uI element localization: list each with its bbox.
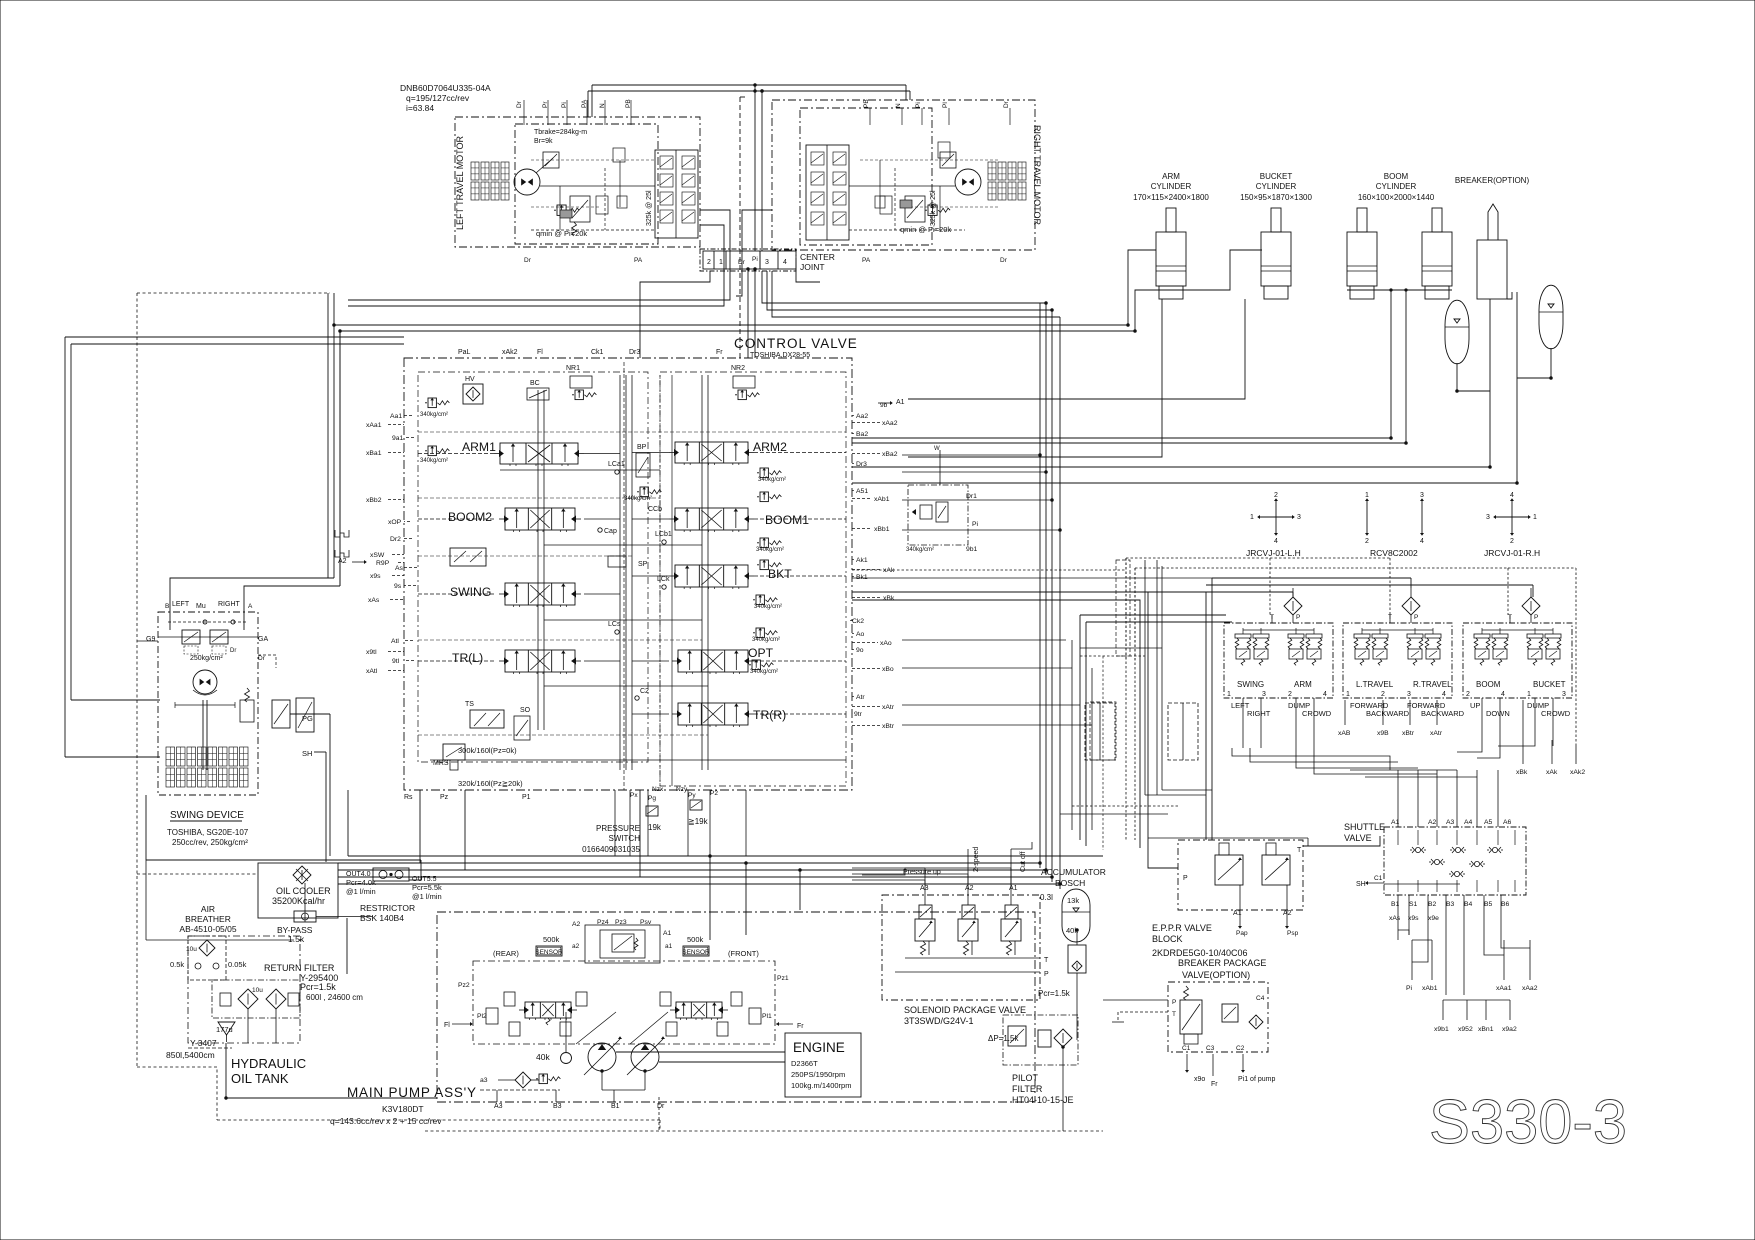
svg-text:SWING: SWING xyxy=(1237,680,1264,689)
svg-text:Mu: Mu xyxy=(196,603,206,610)
remote control valve box L.TRAVEL/R.TRAVEL xyxy=(1343,623,1452,698)
svg-text:Dr: Dr xyxy=(516,100,523,108)
svg-text:OIL COOLER: OIL COOLER xyxy=(276,886,331,896)
svg-text:xAa1: xAa1 xyxy=(366,422,382,429)
svg-text:2: 2 xyxy=(1381,691,1385,698)
svg-text:Psv: Psv xyxy=(640,919,652,926)
svg-text:xAs: xAs xyxy=(368,597,380,604)
svg-text:xAb1: xAb1 xyxy=(1422,985,1438,992)
svg-text:RCV8C2002: RCV8C2002 xyxy=(1370,548,1418,558)
svg-text:4: 4 xyxy=(1510,492,1514,499)
cooler wires xyxy=(146,859,421,861)
svg-text:PA: PA xyxy=(862,257,871,264)
svg-text:P: P xyxy=(1183,875,1188,882)
wires: center joint to control valve and right bus xyxy=(747,271,749,358)
joystick pattern JRCVJ-01-L.H xyxy=(1259,516,1293,518)
engine xyxy=(785,1033,861,1097)
wires: breaker lines xyxy=(852,299,1490,467)
svg-text:T: T xyxy=(1297,847,1302,854)
svg-text:Pi: Pi xyxy=(915,102,922,108)
svg-text:AB-4510-05/05: AB-4510-05/05 xyxy=(179,924,236,934)
svg-text:1: 1 xyxy=(1533,514,1537,521)
svg-text:G9: G9 xyxy=(146,636,155,643)
left travel motor internal pilot lines xyxy=(531,159,655,161)
svg-text:SWING: SWING xyxy=(450,585,491,599)
svg-text:300k/160l(Pz=0k): 300k/160l(Pz=0k) xyxy=(458,746,517,755)
svg-text:SOLENOID PACKAGE VALVE: SOLENOID PACKAGE VALVE xyxy=(904,1005,1026,1015)
svg-text:xAk2: xAk2 xyxy=(502,349,518,356)
svg-text:4: 4 xyxy=(783,259,787,266)
svg-text:Ck1: Ck1 xyxy=(591,349,604,356)
svg-text:B2: B2 xyxy=(1428,901,1437,908)
svg-text:Dr: Dr xyxy=(1000,257,1008,264)
svg-text:As: As xyxy=(395,565,404,572)
svg-text:340kg/cm²: 340kg/cm² xyxy=(754,604,782,610)
left travel brake valve parts xyxy=(543,152,559,168)
svg-text:P: P xyxy=(1534,614,1538,621)
svg-text:BREATHER: BREATHER xyxy=(185,914,231,924)
svg-text:SWING DEVICE: SWING DEVICE xyxy=(170,810,244,821)
svg-text:TR(R): TR(R) xyxy=(753,708,786,722)
svg-text:177u: 177u xyxy=(216,1025,233,1034)
pilot filter for L.TRAVEL RCV xyxy=(1402,597,1420,615)
svg-text:1: 1 xyxy=(1346,691,1350,698)
pump suction filter xyxy=(515,1072,531,1088)
RCV lower port wires xyxy=(1344,700,1346,725)
svg-text:C2: C2 xyxy=(1236,1045,1245,1052)
svg-text:0.05k: 0.05k xyxy=(228,960,247,969)
svg-text:Psp: Psp xyxy=(1287,930,1299,937)
right travel motor RTM outer enclosure xyxy=(772,100,1035,250)
svg-text:B4: B4 xyxy=(1464,901,1473,908)
control valve internal wires xyxy=(418,453,494,455)
svg-text:Pap: Pap xyxy=(1236,930,1248,937)
svg-text:A3: A3 xyxy=(920,885,929,892)
svg-text:xBa2: xBa2 xyxy=(882,451,898,458)
svg-text:xAk: xAk xyxy=(1546,769,1558,776)
pilot filter for BOOM RCV xyxy=(1522,597,1540,615)
svg-text:BREAKER(OPTION): BREAKER(OPTION) xyxy=(1455,176,1530,185)
control valve bottom stubs xyxy=(614,790,616,856)
svg-text:325k @ 25l: 325k @ 25l xyxy=(930,190,937,226)
svg-text:3: 3 xyxy=(1420,492,1424,499)
svg-text:TOSHIBA, SG20E-107: TOSHIBA, SG20E-107 xyxy=(167,828,249,837)
svg-text:FILTER: FILTER xyxy=(1012,1084,1043,1094)
svg-text:NR2: NR2 xyxy=(731,365,745,372)
svg-text:A: A xyxy=(248,603,253,610)
svg-text:xBo: xBo xyxy=(882,666,894,673)
swing anti-cav valve xyxy=(450,548,486,566)
svg-text:LCb1: LCb1 xyxy=(655,531,672,538)
svg-text:Px: Px xyxy=(630,792,638,799)
accumulator check valve xyxy=(1068,945,1086,973)
wire: center joint pilot line (dashed) xyxy=(739,97,741,358)
tank breather funnel xyxy=(218,1022,235,1035)
swing gear train xyxy=(166,747,175,766)
svg-text:ENGINE: ENGINE xyxy=(793,1040,845,1055)
svg-text:PA: PA xyxy=(634,257,643,264)
svg-text:Pl1: Pl1 xyxy=(762,1013,772,1020)
svg-text:xAtr: xAtr xyxy=(1430,730,1443,737)
svg-text:500k: 500k xyxy=(687,935,704,944)
remote control valve box SWING/ARM xyxy=(1224,623,1333,698)
svg-text:P: P xyxy=(1414,614,1418,621)
svg-text:0.5k: 0.5k xyxy=(170,960,184,969)
PG pilot valve xyxy=(272,700,290,728)
svg-text:LCk: LCk xyxy=(657,576,670,583)
joystick pattern RCV8C2002 xyxy=(1366,500,1368,534)
oil cooler xyxy=(258,863,338,918)
svg-text:SHUTTLE: SHUTTLE xyxy=(1344,822,1385,832)
svg-text:xAk2: xAk2 xyxy=(1570,769,1585,776)
svg-text:BOOM: BOOM xyxy=(1476,680,1501,689)
solenoid package valve output wires xyxy=(852,880,925,885)
svg-text:B1: B1 xyxy=(611,1103,620,1110)
tank drain line xyxy=(226,1043,437,1098)
svg-text:E.P.P.R VALVE: E.P.P.R VALVE xyxy=(1152,923,1212,933)
wires pedal box3 down xyxy=(1457,740,1482,752)
main pump P2 xyxy=(631,1043,659,1071)
svg-text:340kg/cm²: 340kg/cm² xyxy=(906,547,934,553)
svg-text:GA: GA xyxy=(258,636,268,643)
breaker package outputs xyxy=(1186,1054,1188,1072)
svg-text:x952: x952 xyxy=(1458,1026,1473,1033)
svg-text:150×95×1870×1300: 150×95×1870×1300 xyxy=(1240,193,1312,202)
svg-text:Atr: Atr xyxy=(856,694,865,701)
wire: lower horizontal bus xyxy=(348,855,1103,857)
wire: boom cylinder base bus xyxy=(1347,289,1452,291)
svg-text:W: W xyxy=(934,446,940,452)
svg-text:CENTER: CENTER xyxy=(800,252,835,262)
svg-text:D2366T: D2366T xyxy=(791,1059,818,1068)
right pump regulator xyxy=(676,1002,722,1018)
swing mechanical shaft xyxy=(202,700,204,770)
svg-text:xBb2: xBb2 xyxy=(366,497,382,504)
pilot filter for SWING RCV xyxy=(1284,597,1302,615)
travel motor port stub lines xyxy=(523,100,525,125)
solenoid valve 1 xyxy=(919,905,932,919)
svg-text:SWITCH: SWITCH xyxy=(608,834,640,843)
wires control valve right to pilot mesh xyxy=(852,569,1126,571)
svg-text:@1 l/min: @1 l/min xyxy=(412,892,442,901)
svg-text:SENSOR: SENSOR xyxy=(682,949,710,956)
svg-text:3: 3 xyxy=(1486,514,1490,521)
main relief valves 340kg xyxy=(428,398,436,408)
svg-text:Pz2: Pz2 xyxy=(458,982,470,989)
solenoid package valve enclosure xyxy=(882,895,1040,1000)
solenoid valve 3 xyxy=(1005,905,1018,919)
svg-text:xAB: xAB xyxy=(1338,730,1351,737)
tank outline xyxy=(188,936,300,1043)
svg-text:MRS: MRS xyxy=(433,760,449,767)
wires pedal box1 down to shuttle xyxy=(1232,748,1390,770)
svg-text:40k: 40k xyxy=(536,1052,550,1062)
svg-text:BOOM2: BOOM2 xyxy=(448,510,492,524)
svg-text:x9e: x9e xyxy=(1428,915,1439,922)
svg-text:CROWD: CROWD xyxy=(1302,709,1332,718)
svg-text:Fl: Fl xyxy=(537,349,543,356)
svg-text:q=195/127cc/rev: q=195/127cc/rev xyxy=(406,93,470,103)
svg-text:850l,5400cm: 850l,5400cm xyxy=(166,1050,215,1060)
svg-text:250kg/cm²: 250kg/cm² xyxy=(190,655,223,662)
svg-text:3: 3 xyxy=(1297,514,1301,521)
svg-text:TOSHIBA,DX28-55: TOSHIBA,DX28-55 xyxy=(750,352,810,359)
svg-text:LCa1: LCa1 xyxy=(608,461,625,468)
svg-text:340kg/cm²: 340kg/cm² xyxy=(756,547,784,553)
svg-text:RESTRICTOR: RESTRICTOR xyxy=(360,903,415,913)
svg-text:xAtr: xAtr xyxy=(882,704,895,711)
swing brake xyxy=(240,700,254,722)
pilot filter enclosure xyxy=(1003,1015,1078,1065)
svg-text:Dr1: Dr1 xyxy=(966,493,977,500)
left travel motor gear reduction xyxy=(471,162,479,180)
svg-text:xBtr: xBtr xyxy=(882,723,895,730)
svg-text:160×100×2000×1440: 160×100×2000×1440 xyxy=(1358,193,1435,202)
left pump regulator xyxy=(525,1002,571,1018)
svg-text:3T3SWD/G24V-1: 3T3SWD/G24V-1 xyxy=(904,1016,974,1026)
pump internal wires xyxy=(616,1051,785,1053)
svg-text:10u: 10u xyxy=(252,987,263,994)
wires: travel motor A/B lines down-left xyxy=(348,210,730,300)
svg-text:13k: 13k xyxy=(1067,896,1079,905)
svg-text:CYLINDER: CYLINDER xyxy=(1376,182,1417,191)
svg-text:q=143.6cc/rev x 2 + 15 cc/rev: q=143.6cc/rev x 2 + 15 cc/rev xyxy=(330,1116,442,1126)
svg-text:Pi: Pi xyxy=(752,256,758,263)
svg-text:a3: a3 xyxy=(480,1077,488,1084)
junction dots xyxy=(754,90,757,93)
svg-text:340kg/cm²: 340kg/cm² xyxy=(624,496,652,502)
svg-text:(REAR): (REAR) xyxy=(493,949,519,958)
svg-text:CROWD: CROWD xyxy=(1541,709,1571,718)
svg-text:@1 l/min: @1 l/min xyxy=(346,887,376,896)
svg-text:1: 1 xyxy=(1227,691,1231,698)
svg-text:OUT4.0: OUT4.0 xyxy=(346,871,371,878)
svg-text:xAa2: xAa2 xyxy=(882,420,898,427)
svg-text:BSK 140B4: BSK 140B4 xyxy=(360,913,404,923)
svg-text:Nzy: Nzy xyxy=(676,786,688,793)
svg-text:xAb1: xAb1 xyxy=(874,496,890,503)
svg-text:Aa2: Aa2 xyxy=(856,413,868,420)
svg-text:BOOM: BOOM xyxy=(1384,172,1409,181)
svg-text:Pl2: Pl2 xyxy=(477,1013,487,1020)
svg-text:9tr: 9tr xyxy=(854,711,863,718)
svg-text:Pl: Pl xyxy=(942,102,949,108)
svg-text:2: 2 xyxy=(1288,691,1292,698)
svg-text:Pz4: Pz4 xyxy=(597,919,609,926)
right travel motor internal pilot lines xyxy=(860,159,1000,161)
svg-text:9b1: 9b1 xyxy=(966,546,978,553)
svg-text:340kg/cm²: 340kg/cm² xyxy=(420,412,448,418)
center joint xyxy=(700,249,796,271)
svg-text:Pcr=1.5k: Pcr=1.5k xyxy=(1038,989,1071,998)
svg-text:RETURN FILTER: RETURN FILTER xyxy=(264,963,335,973)
svg-text:Pcr=1.5k: Pcr=1.5k xyxy=(300,982,336,992)
svg-text:LEFT TRAVEL MOTOR: LEFT TRAVEL MOTOR xyxy=(455,135,465,230)
svg-text:340kg/cm²: 340kg/cm² xyxy=(758,477,786,483)
svg-text:C1: C1 xyxy=(1182,1045,1191,1052)
left travel motor hydraulic motor M1 xyxy=(514,169,540,195)
svg-text:1: 1 xyxy=(719,259,723,266)
main pump P1 xyxy=(588,1043,616,1071)
svg-text:BUCKET: BUCKET xyxy=(1533,680,1566,689)
svg-text:RIGHT: RIGHT xyxy=(218,601,241,608)
svg-text:x9s: x9s xyxy=(370,573,381,580)
wire: long right-side vertical bundle xyxy=(1039,303,1041,868)
svg-text:340kg/cm²: 340kg/cm² xyxy=(750,669,778,675)
by-pass valve xyxy=(294,911,316,922)
svg-text:Pcr=5.5k: Pcr=5.5k xyxy=(412,883,442,892)
shuttle valve bottom wires xyxy=(1397,895,1399,940)
pump regulators enclosure xyxy=(473,961,775,1044)
right travel counterbalance valve xyxy=(806,145,849,240)
svg-text:P2: P2 xyxy=(710,790,718,797)
svg-text:BP: BP xyxy=(637,444,647,451)
remote control valve box BOOM/BUCKET xyxy=(1463,623,1572,698)
restrictor xyxy=(373,868,409,881)
svg-text:B3: B3 xyxy=(1446,901,1455,908)
svg-text:500k: 500k xyxy=(543,935,560,944)
svg-text:Ak1: Ak1 xyxy=(856,557,868,564)
svg-text:Dr2: Dr2 xyxy=(390,536,401,543)
svg-text:Nzx: Nzx xyxy=(652,786,664,793)
svg-text:qmin @ Pi=20k: qmin @ Pi=20k xyxy=(536,229,587,238)
left travel motor inner enclosure xyxy=(515,124,658,244)
svg-text:100kg.m/1400rpm: 100kg.m/1400rpm xyxy=(791,1081,851,1090)
swing hydraulic motor xyxy=(193,670,217,694)
svg-text:x9a2: x9a2 xyxy=(1502,1026,1517,1033)
svg-text:x9B: x9B xyxy=(1377,730,1389,737)
svg-text:SO: SO xyxy=(520,707,531,714)
svg-text:xBk: xBk xyxy=(1516,769,1528,776)
svg-text:Dr: Dr xyxy=(1003,100,1010,108)
svg-text:325k @ 25l: 325k @ 25l xyxy=(646,190,653,226)
svg-text:340kg/cm²: 340kg/cm² xyxy=(420,458,448,464)
svg-text:SH: SH xyxy=(1356,881,1366,888)
svg-text:xSW: xSW xyxy=(370,552,385,559)
svg-text:S1: S1 xyxy=(1409,901,1418,908)
svg-text:P: P xyxy=(1296,614,1300,621)
svg-text:P1: P1 xyxy=(522,794,531,801)
svg-text:TS: TS xyxy=(465,701,474,708)
svg-text:Dr: Dr xyxy=(524,257,532,264)
svg-text:Dr: Dr xyxy=(657,1103,665,1110)
svg-text:Pi: Pi xyxy=(972,521,979,528)
svg-text:35200Kcal/hr: 35200Kcal/hr xyxy=(272,896,325,906)
svg-text:Pz3: Pz3 xyxy=(615,919,627,926)
svg-text:PaL: PaL xyxy=(458,349,471,356)
svg-text:AIR: AIR xyxy=(201,904,215,914)
svg-text:BOOM1: BOOM1 xyxy=(765,513,809,527)
svg-text:Bk1: Bk1 xyxy=(856,574,868,581)
svg-text:2: 2 xyxy=(707,259,711,266)
wires: cylinder connections xyxy=(334,250,1156,325)
svg-text:K3V180DT: K3V180DT xyxy=(382,1104,424,1114)
svg-text:ARM: ARM xyxy=(1294,680,1312,689)
svg-text:Pi1 of pump: Pi1 of pump xyxy=(1238,1076,1275,1083)
extended dotted pilot lines to right xyxy=(1508,567,1576,569)
svg-text:0.3l: 0.3l xyxy=(1040,893,1053,902)
breaker package check xyxy=(1249,1015,1263,1029)
svg-text:3: 3 xyxy=(1407,691,1411,698)
svg-text:A2: A2 xyxy=(338,558,347,565)
svg-text:xOP: xOP xyxy=(388,519,402,526)
svg-text:UP: UP xyxy=(1470,701,1480,710)
svg-text:1: 1 xyxy=(1250,514,1254,521)
svg-text:Py: Py xyxy=(688,792,696,799)
svg-text:B6: B6 xyxy=(1501,901,1510,908)
svg-text:xAtl: xAtl xyxy=(366,668,378,675)
svg-text:Ao: Ao xyxy=(856,631,865,638)
svg-text:ARM1: ARM1 xyxy=(462,440,496,454)
EPPR feed wires xyxy=(1148,592,1178,868)
lower right label wires xyxy=(1411,940,1413,980)
svg-text:xBn1: xBn1 xyxy=(1478,1026,1494,1033)
wires from control valve right to RCV mesh xyxy=(1080,614,1226,616)
svg-text:250PS/1950rpm: 250PS/1950rpm xyxy=(791,1070,845,1079)
svg-text:A1: A1 xyxy=(663,930,672,937)
port relief subcircuit right of control valve xyxy=(908,485,968,545)
svg-text:B5: B5 xyxy=(1484,901,1493,908)
svg-text:B: B xyxy=(165,603,169,610)
svg-text:BACKWARD: BACKWARD xyxy=(1421,709,1465,718)
svg-text:3: 3 xyxy=(1262,691,1266,698)
svg-text:Dr: Dr xyxy=(258,655,266,662)
svg-text:Ba2: Ba2 xyxy=(856,431,868,438)
svg-text:xAo: xAo xyxy=(880,640,892,647)
svg-text:A6: A6 xyxy=(1503,819,1512,826)
solenoid pilot feed wires xyxy=(924,868,926,905)
svg-text:BLOCK: BLOCK xyxy=(1152,934,1183,944)
svg-text:HYDRAULIC: HYDRAULIC xyxy=(231,1056,306,1071)
control valve pilot cross lines xyxy=(418,431,846,433)
EPPR valve 2 xyxy=(1262,855,1290,885)
breaker package main valve xyxy=(1180,1000,1202,1034)
svg-text:≧19k: ≧19k xyxy=(688,817,709,826)
accumulator right 2 xyxy=(1539,285,1563,349)
svg-text:RIGHT TRAVEL MOTOR: RIGHT TRAVEL MOTOR xyxy=(1032,125,1042,226)
joystick pattern JRCVJ-01-R.H xyxy=(1495,516,1529,518)
svg-text:i=63.84: i=63.84 xyxy=(406,103,434,113)
svg-text:A1: A1 xyxy=(1009,885,1018,892)
svg-text:OPT: OPT xyxy=(748,646,774,660)
svg-text:a2: a2 xyxy=(572,943,580,950)
svg-text:ARM2: ARM2 xyxy=(753,440,787,454)
svg-text:Pg: Pg xyxy=(648,795,656,802)
pilot mesh between control valve and EPPR/shuttle xyxy=(1116,560,1130,656)
swing relief valves xyxy=(182,630,200,644)
svg-text:BC: BC xyxy=(530,380,540,387)
svg-text:1.5k: 1.5k xyxy=(288,934,305,944)
EPPR valve block enclosure xyxy=(1178,840,1303,910)
right travel motor gear reduction xyxy=(988,162,996,180)
svg-text:A4: A4 xyxy=(1464,819,1473,826)
control valve inner sub-enclosures xyxy=(418,372,648,762)
svg-text:xAs: xAs xyxy=(1389,915,1401,922)
svg-text:Fl: Fl xyxy=(444,1022,450,1029)
svg-text:A51: A51 xyxy=(856,488,868,495)
svg-text:Pz1: Pz1 xyxy=(777,975,789,982)
svg-text:x9b1: x9b1 xyxy=(1434,1026,1449,1033)
svg-text:x9s: x9s xyxy=(1408,915,1419,922)
swing wires xyxy=(170,578,334,630)
solenoid T/P lines xyxy=(905,957,1040,959)
svg-text:xBk: xBk xyxy=(883,595,895,602)
svg-text:170×115×2400×1800: 170×115×2400×1800 xyxy=(1133,193,1209,202)
svg-text:2KDRDE5G0-10/40C06: 2KDRDE5G0-10/40C06 xyxy=(1152,948,1248,958)
svg-text:340kg/cm²: 340kg/cm² xyxy=(752,637,780,643)
svg-text:C4: C4 xyxy=(1256,995,1265,1002)
svg-text:P: P xyxy=(1044,971,1049,978)
